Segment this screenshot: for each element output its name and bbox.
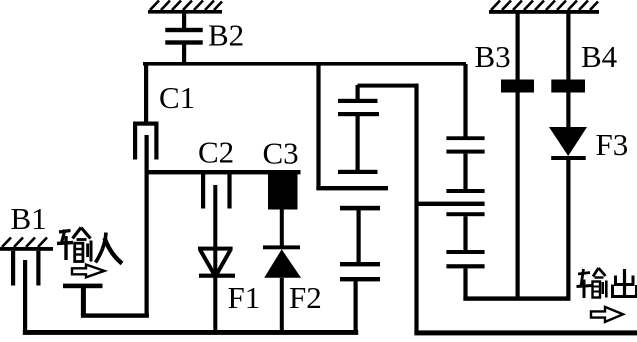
output block arrow — [591, 307, 623, 322]
wire: link rail y298 joining P2, B3, B4 — [463, 296, 570, 300]
brake B4 (filled bar on grounded line) — [551, 13, 585, 128]
lower half — [340, 206, 380, 211]
svg-text:C2: C2 — [198, 135, 234, 170]
svg-text:F1: F1 — [228, 280, 261, 315]
clutch C3 (filled block below shelf) — [268, 172, 298, 210]
wire: L from P1 top right then down x417 to bottom-right rail — [358, 84, 637, 336]
label 输入 (input) — [57, 228, 122, 264]
wire: C3 lead down to F2 — [280, 209, 284, 247]
brake B3 (filled bar on grounded line) — [501, 13, 534, 301]
输 right part 俞 — [73, 228, 82, 239]
input block arrow — [72, 265, 104, 278]
svg-text:B4: B4 — [581, 39, 618, 74]
输 left radical 车 — [578, 273, 590, 275]
brake B1 (grounded fork + inner member) — [11, 251, 41, 334]
input shaft T — [63, 284, 103, 315]
svg-text:B1: B1 — [11, 201, 47, 236]
clutch C1 (outer fork from top rail + inner member) — [133, 64, 159, 160]
svg-text:F2: F2 — [289, 280, 322, 315]
svg-text:B3: B3 — [475, 39, 511, 74]
svg-text:B2: B2 — [208, 18, 244, 53]
brake B2 (two bars + leads) — [165, 14, 202, 64]
svg-text:C3: C3 — [263, 136, 299, 171]
wire: L from top rail down at x318 then right under P1 — [316, 64, 388, 190]
clutch C2 (fork below shelf + inner member) — [201, 174, 232, 209]
wire: C2 inner member down through F1 — [213, 185, 217, 333]
label 输出 (output) — [577, 268, 637, 298]
wire: bottom-left rail — [23, 330, 358, 335]
wire: input shaft vertical (C1 inner member) — [145, 135, 149, 318]
入 — [96, 233, 107, 263]
wire: input T to main shaft — [81, 313, 149, 317]
输 right part 俞 — [593, 268, 599, 277]
wire: top rail y62 from C1 stub to right column — [143, 62, 466, 66]
svg-text:F3: F3 — [596, 127, 629, 162]
planetary column P1 (x~357): upper mesh pair — [338, 85, 380, 332]
ground G1 (top left, for brake B2) — [148, 1, 222, 14]
ground G3 (left, for brake B1) — [0, 238, 53, 251]
freewheel F1 (outline diode, cathode bar below) — [198, 247, 235, 278]
ground G2 (top right, for B3/B4) — [489, 1, 599, 14]
输 left radical 车 — [59, 231, 71, 233]
freewheel F3 (filled diode pointing down, bar below) — [549, 127, 587, 300]
wire: shelf y170 carrying C2/C3 — [145, 170, 301, 174]
出 — [623, 269, 626, 295]
freewheel F2 (filled diode pointing up, bar above) — [263, 245, 301, 333]
planetary column P2 (x~465) — [417, 64, 485, 300]
svg-text:C1: C1 — [159, 80, 195, 115]
